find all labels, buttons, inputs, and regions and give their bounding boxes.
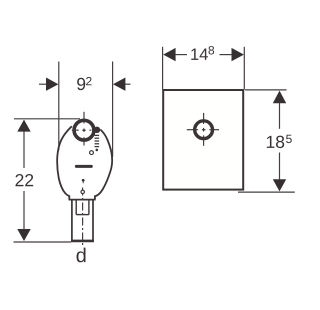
dimension 92 left extension line xyxy=(58,62,60,151)
cover plate circle horizontal centerline xyxy=(187,129,194,131)
spring end dot xyxy=(96,149,99,152)
dimension 185 line lower segment xyxy=(279,153,281,180)
outlet pipe left wall xyxy=(71,200,73,242)
dimension 92 right arrow xyxy=(113,78,125,91)
cover plate circle ring xyxy=(195,121,213,139)
cover plate rectangle xyxy=(163,90,243,190)
label 92 xyxy=(77,77,91,90)
trap body outline left xyxy=(57,126,72,199)
dimension 185 down arrow xyxy=(273,179,286,191)
small circle on centerline xyxy=(81,190,84,193)
outlet pipe bottom edge xyxy=(71,240,94,243)
dimension 22 up arrow xyxy=(17,120,30,132)
dimension 22 line upper segment xyxy=(23,121,25,169)
label 22 xyxy=(15,174,33,186)
trap inlet circle horizontal centerline xyxy=(72,129,79,131)
outlet pipe centerline xyxy=(82,188,84,248)
trap inlet circle vertical centerline xyxy=(83,112,85,119)
spring rung 2 xyxy=(95,137,100,139)
dimension 22 top extension line xyxy=(14,118,80,120)
spring rung 4 xyxy=(95,143,100,145)
label d xyxy=(77,248,86,263)
cover plate circle vertical centerline xyxy=(203,113,205,120)
spring rung 1 xyxy=(95,134,100,136)
outlet pipe right wall xyxy=(92,200,94,242)
spring rung 5 xyxy=(95,146,100,148)
dimension 148 line right segment xyxy=(220,54,233,56)
dimension 92 right tail xyxy=(125,83,131,85)
dimension 148 line left segment xyxy=(175,54,187,56)
label 185 xyxy=(267,135,292,148)
dimension 185 bottom extension line xyxy=(238,191,295,193)
trap inlet circle ring xyxy=(74,120,94,140)
slot detail xyxy=(75,165,93,168)
outlet pipe inner right wall xyxy=(88,200,90,215)
dimension 22 bottom extension line xyxy=(14,241,72,243)
outlet pipe inner left wall xyxy=(75,200,77,215)
label 148 xyxy=(191,46,214,60)
dimension 92 left tail xyxy=(39,83,47,85)
spring rung 3 xyxy=(95,140,100,142)
cover plate circle center dot xyxy=(203,129,205,131)
dimension 92 left arrow xyxy=(46,78,58,91)
keyhole dot xyxy=(82,179,85,182)
dimension 22 line lower segment xyxy=(23,191,25,240)
dimension 22 down arrow xyxy=(17,229,30,241)
dimension 185 up arrow xyxy=(273,91,286,104)
trap body outline right xyxy=(95,130,112,200)
keyhole tail xyxy=(82,182,84,184)
dimension 185 top extension line xyxy=(245,89,287,91)
dimension 92 right extension line xyxy=(112,62,114,158)
dimension 148 left extension line xyxy=(162,47,164,90)
outlet pipe inner bottom xyxy=(76,214,89,216)
trap collar line xyxy=(69,199,96,201)
trap inlet circle center dot xyxy=(83,129,85,131)
dimension 148 left arrow xyxy=(163,48,175,61)
fastener blob xyxy=(94,127,100,133)
dimension 185 line upper segment xyxy=(279,103,281,129)
dimension 148 right arrow xyxy=(232,48,244,61)
dimension 148 right extension line xyxy=(243,47,245,90)
small circle detail xyxy=(90,151,94,155)
